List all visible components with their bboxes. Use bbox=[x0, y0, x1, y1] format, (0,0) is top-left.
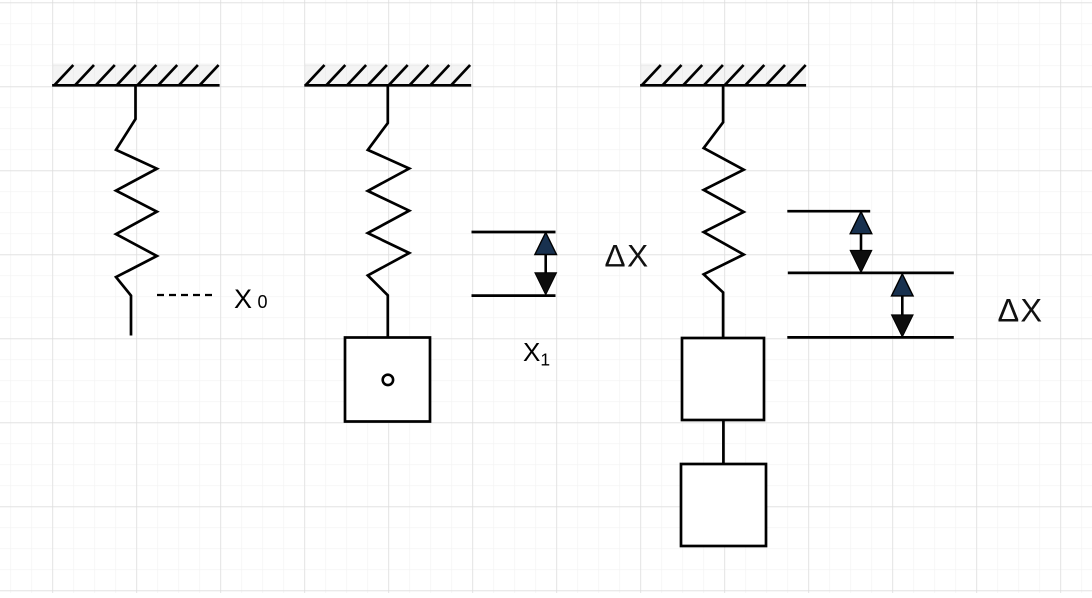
svg-text:ΔX: ΔX bbox=[998, 292, 1044, 328]
svg-text:ΔX: ΔX bbox=[605, 237, 650, 273]
